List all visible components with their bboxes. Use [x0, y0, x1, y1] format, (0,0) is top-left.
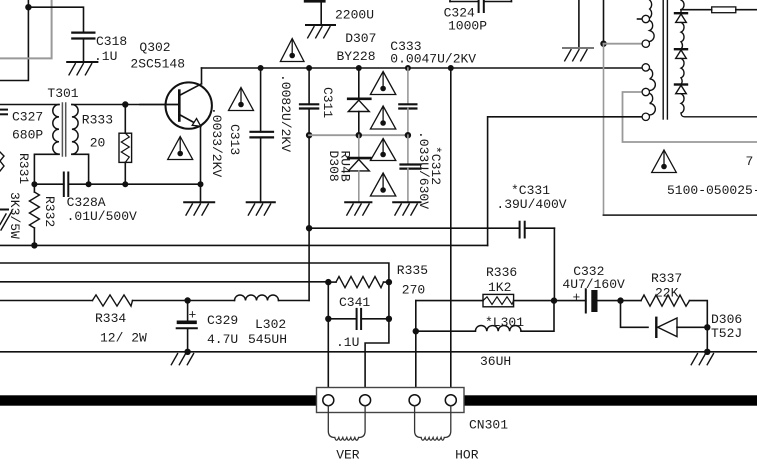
node C341 right [386, 316, 392, 322]
svg-text:5100-050025-0: 5100-050025-0 [667, 183, 757, 198]
svg-text:*L301: *L301 [485, 315, 524, 330]
node R332 line1 junction [31, 242, 37, 248]
wire FBT tap5 to left [488, 117, 642, 246]
wire pin4 vertical x450.8 [450, 68, 452, 395]
ground (D308) [345, 202, 371, 215]
svg-text:C313: C313 [227, 124, 242, 155]
wire grey bus y135.2 [309, 134, 408, 136]
wire bus line1 y245.4 to FBT [0, 244, 488, 246]
svg-text:545UH: 545UH [248, 332, 287, 347]
wire resistor to edge [736, 9, 757, 11]
node R335 right [386, 279, 392, 285]
heavy chassis bar right [464, 395, 757, 405]
svg-text:T301: T301 [47, 86, 78, 101]
svg-text:*C331: *C331 [511, 183, 550, 198]
capacitor C312 [401, 135, 421, 202]
ground (top right) [563, 48, 593, 61]
node D306 right junction [704, 324, 710, 330]
wire to C318 [28, 7, 83, 32]
node C311 / C331 junction [306, 225, 312, 231]
heavy chassis bar left [0, 395, 317, 405]
node C341 left [325, 316, 331, 322]
capacitor C341 [328, 309, 389, 329]
svg-text:C328A: C328A [67, 195, 106, 210]
capacitor C328A [64, 173, 69, 197]
wire C331 row y228.2 [309, 228, 554, 300]
ground (D306 bus) [691, 354, 713, 365]
svg-text:R331: R331 [16, 153, 31, 184]
FBT block box (grey) [604, 44, 757, 215]
svg-text:Q302: Q302 [139, 40, 170, 55]
svg-text:680P: 680P [12, 128, 43, 143]
svg-text:.0033/2KV: .0033/2KV [209, 107, 224, 177]
ground (C318) [67, 62, 97, 75]
ground (C312) [393, 202, 420, 215]
svg-text:C327: C327 [12, 110, 43, 125]
svg-text:T52J: T52J [711, 326, 742, 341]
svg-text:.1U: .1U [336, 335, 359, 350]
node D307 bus junction [356, 132, 362, 138]
resistor R337 [621, 295, 708, 352]
warning triangle (stack 2) [370, 106, 395, 129]
wire HOR loop below pins 3-4 [415, 406, 451, 441]
node C311 bus junction [306, 132, 312, 138]
svg-text:RU4B: RU4B [338, 151, 353, 182]
transformer FBT primary winding [650, 0, 656, 115]
resistor R332 [29, 184, 39, 245]
wire FBT tap2 grey [604, 43, 642, 45]
svg-text:+: + [189, 308, 197, 323]
svg-text:2SC5148: 2SC5148 [130, 57, 185, 72]
node R335 left [325, 279, 331, 285]
wire bus line3 y281.8 [0, 281, 328, 283]
svg-text:.39U/400V: .39U/400V [496, 197, 566, 212]
svg-text:4.7U: 4.7U [207, 332, 238, 347]
wire R335 right vertical + jog to pin2 [365, 282, 389, 395]
wire bottom row y184.2 [34, 183, 200, 185]
wire ground bus y351.8 full width [0, 351, 757, 353]
capacitor C313 [251, 68, 274, 202]
capacitor C327 (cut at left) [0, 110, 7, 115]
node top-left junction [25, 4, 31, 10]
warning triangle (stack 4) [370, 173, 395, 196]
transformer T301 [0, 103, 179, 184]
svg-text:.01U/500V: .01U/500V [67, 209, 137, 224]
node D306 bus junction [704, 349, 710, 355]
wire top-left grey corner [0, 0, 52, 58]
node bottom row junctions [31, 181, 203, 187]
capacitor 2200U (cut at top) [304, 0, 326, 25]
wire FBT tap4 grey [623, 92, 757, 142]
svg-text:C341: C341 [339, 295, 370, 310]
warning triangle (left of D307) [280, 39, 304, 62]
wire secondary top to resistor [681, 9, 712, 11]
svg-text:3K3/5W: 3K3/5W [7, 192, 22, 239]
svg-text:.1U: .1U [94, 49, 117, 64]
wire bus line2 y263 [0, 263, 389, 282]
wire R336 node A vertical [415, 301, 417, 395]
node base junction [122, 101, 128, 107]
ground (C329 bus) [171, 354, 193, 365]
svg-text:BY228: BY228 [337, 49, 376, 64]
connector CN301 box [317, 388, 465, 413]
capacitor C333 [399, 68, 416, 135]
svg-text:R337: R337 [651, 271, 682, 286]
inductor L302 [235, 295, 279, 301]
ground (2200U) [306, 25, 335, 38]
capacitor C329 [177, 301, 197, 352]
svg-text:270: 270 [402, 283, 425, 298]
svg-text:C318: C318 [96, 34, 127, 49]
svg-text:HOR: HOR [455, 448, 479, 463]
svg-text:R333: R333 [82, 113, 113, 128]
svg-text:D307: D307 [345, 31, 376, 46]
ground (left edge, partial) [0, 210, 12, 231]
capacitor C318 [72, 33, 94, 62]
svg-text:1K2: 1K2 [488, 280, 511, 295]
FBT core [663, 0, 667, 119]
svg-text:22K: 22K [655, 286, 679, 301]
resistor R331 (cut at left) [0, 152, 4, 171]
node L301 left junction [413, 328, 419, 334]
node main wire junctions [258, 65, 454, 71]
capacitor C311 .0082U/2KV chain x309.1 [300, 68, 318, 301]
FBT secondary winding with diodes [675, 0, 757, 117]
wire pin1 vertical [327, 282, 329, 395]
node B junction (R336/L301/C332) [551, 297, 557, 303]
svg-text:7: 7 [746, 154, 754, 169]
wire FBT tap1 stub [638, 18, 642, 20]
svg-text:D306: D306 [711, 312, 742, 327]
capacitor C331 [520, 222, 525, 238]
node C329 bus junction [184, 349, 190, 355]
svg-text:R332: R332 [42, 196, 57, 227]
warning triangle (FBT box) [652, 150, 677, 173]
connector pins [323, 395, 457, 406]
ground (Q302 emitter) [184, 184, 214, 215]
svg-text:L302: L302 [255, 317, 286, 332]
resistor (FBT top right, box) [712, 7, 736, 13]
node C332 right junction [617, 297, 623, 303]
wire top vertical to ground (x578.9) [578, 0, 580, 48]
warning triangle (near C313) [229, 88, 254, 111]
capacitor C324 (cut at top) [450, 0, 511, 12]
svg-text:R334: R334 [95, 311, 126, 326]
diode D307 [348, 68, 370, 135]
svg-text:20: 20 [90, 136, 106, 151]
svg-text:.033U/630V: .033U/630V [416, 131, 431, 209]
wire main collector line y68 [202, 67, 642, 69]
resistor R336 (box) [416, 294, 554, 306]
svg-text:12/ 2W: 12/ 2W [100, 331, 147, 346]
node C329 top junction [184, 297, 190, 303]
svg-text:1000P: 1000P [448, 19, 487, 34]
node C333 bus junction [405, 132, 411, 138]
svg-text:.0082U/2KV: .0082U/2KV [278, 74, 293, 152]
svg-text:+: + [573, 290, 581, 305]
svg-text:4U7/160V: 4U7/160V [562, 277, 625, 292]
inductor L301 [416, 301, 554, 332]
diode D306 [621, 301, 708, 337]
svg-text:36UH: 36UH [480, 354, 511, 369]
resistor R335 [328, 277, 389, 288]
wire VER loop below pins 1-2 [328, 406, 365, 441]
node FBT tap2 junction [600, 41, 606, 47]
svg-text:C329: C329 [207, 313, 238, 328]
transistor Q302 [140, 68, 212, 184]
svg-text:2200U: 2200U [335, 8, 374, 23]
wire top-left black corner [0, 0, 28, 81]
svg-text:VER: VER [336, 448, 360, 463]
wire bus line4 y300.5 [0, 300, 309, 302]
svg-text:CN301: CN301 [469, 418, 508, 433]
resistor R333 (box) [119, 105, 132, 185]
svg-text:R336: R336 [486, 265, 517, 280]
FBT tap terminals [642, 15, 649, 120]
wire top vertical to FBT (x603.5) [603, 0, 605, 44]
svg-text:R335: R335 [397, 263, 428, 278]
capacitor C332 electrolytic [554, 289, 621, 312]
svg-text:C311: C311 [320, 87, 335, 118]
diode D308 [348, 135, 370, 202]
resistor R334 [92, 295, 132, 306]
warning triangle (below Q302) [168, 137, 193, 160]
svg-text:0.0047U/2KV: 0.0047U/2KV [390, 52, 476, 67]
ground (C313) [247, 202, 275, 215]
warning triangle (stack 3) [370, 139, 395, 161]
warning triangle (stack 1) [370, 72, 395, 95]
